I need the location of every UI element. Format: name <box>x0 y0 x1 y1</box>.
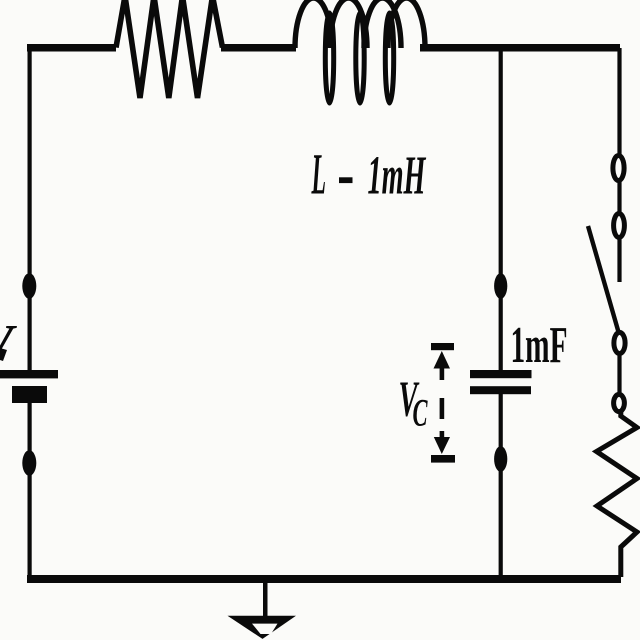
resistor R (top, series) <box>116 0 223 98</box>
node dot: left wire top <box>22 273 36 299</box>
annotation VC: down arrow stem <box>440 431 445 445</box>
label V: lower stroke fragment at canvas edge <box>0 348 7 361</box>
wire: top horizontal, left segment <box>27 44 116 52</box>
svg-text:1mF: 1mF <box>511 317 568 374</box>
wire: stub below ring 2 <box>617 237 621 282</box>
annotation VC: dashed middle segment <box>440 398 445 419</box>
svg-text:L: L <box>311 142 326 207</box>
inductor L loop 2 <box>356 13 364 103</box>
resistor R2 (right vertical) <box>597 411 638 577</box>
wire: top horizontal, right segment <box>420 44 620 52</box>
svg-text:1mH: 1mH <box>368 145 427 206</box>
wire: capacitor branch lower <box>499 394 503 578</box>
wire: left vertical lower <box>28 400 32 578</box>
capacitor C: bottom plate <box>470 386 531 394</box>
switch ring terminal 1 <box>613 156 624 181</box>
ground: triangle <box>228 616 297 639</box>
capacitor C: top plate <box>470 370 532 378</box>
inductor L loop 1 <box>325 13 333 103</box>
wire: between ring 3 and ring 4 <box>617 353 621 395</box>
switch ring terminal 4 <box>614 394 625 411</box>
inductor L coil arch 3 <box>364 0 401 48</box>
annotation VC: up arrowhead <box>434 351 451 369</box>
svg-text:C: C <box>413 392 429 435</box>
annotation VC: bottom reference bar <box>431 455 455 463</box>
node dot: left wire bottom <box>22 450 36 476</box>
inductor L coil arch 1 <box>295 0 332 48</box>
node dot: capacitor branch top <box>494 273 507 299</box>
battery V: long plate <box>0 370 58 378</box>
inductor L coil arch 2 <box>330 0 367 48</box>
battery V: short thick plate <box>12 386 47 403</box>
switch ring terminal 3 <box>614 332 625 353</box>
wire: right vertical from top corner to switch <box>617 48 621 154</box>
annotation VC: up arrow stem <box>440 362 445 380</box>
wire: bottom horizontal (ground rail) <box>27 575 621 583</box>
switch ring terminal 2 <box>614 214 625 238</box>
wire: top horizontal, between resistor and inductor <box>221 44 296 52</box>
wire: between switch rings 1 and 2 <box>617 180 621 212</box>
ground: stem <box>263 581 268 617</box>
node dot: capacitor branch bottom <box>494 446 507 472</box>
inductor L loop 3 <box>385 13 393 103</box>
ground: white notch <box>252 624 278 634</box>
svg-text:V: V <box>0 315 17 373</box>
inductor L coil arch 4 <box>388 0 425 48</box>
switch blade (open) <box>588 226 619 332</box>
annotation VC: down arrowhead <box>434 437 450 454</box>
wire: capacitor branch upper <box>499 48 503 370</box>
annotation VC: top reference bar <box>431 343 454 350</box>
wire: left vertical upper <box>28 46 32 372</box>
